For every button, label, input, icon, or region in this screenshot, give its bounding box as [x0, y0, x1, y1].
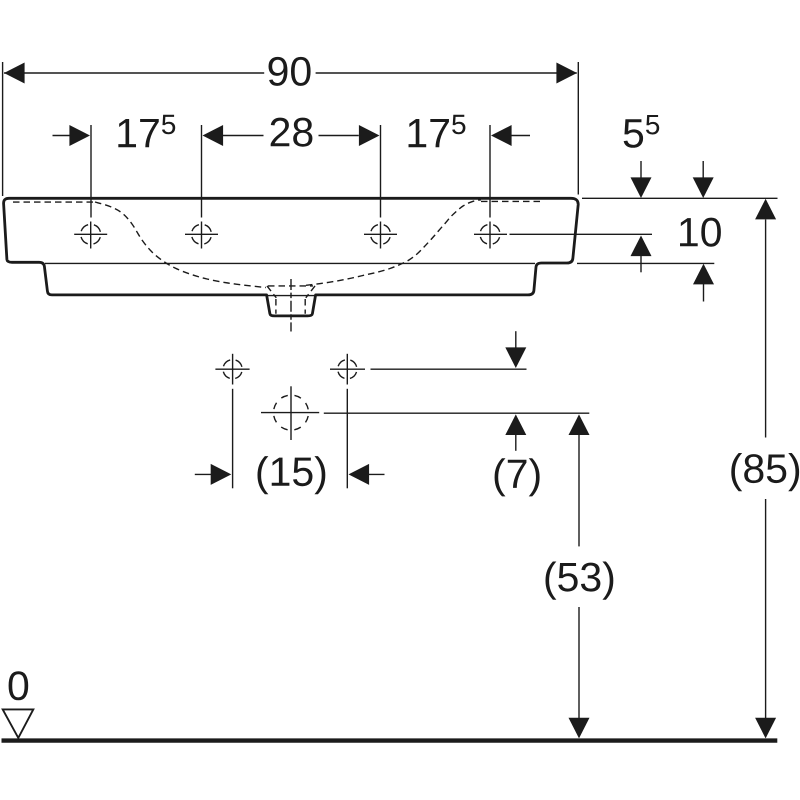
dimension text 17.5 left	[118, 115, 175, 147]
(15) right tail line	[368, 473, 385, 475]
extension line hole2	[201, 125, 203, 218]
drain trap mouth line	[267, 295, 315, 297]
90 right arrow	[556, 63, 577, 84]
(15) left-pointing arrow	[349, 464, 370, 485]
dimension line 28 left segment	[223, 135, 264, 137]
crosshair hole1	[74, 222, 107, 249]
dimension text 17.5 right	[409, 115, 466, 147]
(7) down arrow stem	[515, 331, 517, 348]
datum text 0	[9, 671, 29, 700]
(15) left tail line	[195, 473, 212, 475]
faucet level line	[324, 412, 590, 414]
dimension text (7)	[495, 458, 540, 496]
drain center axis	[290, 279, 292, 332]
17.5L right-pointing arrow	[69, 125, 90, 146]
shelf level thin line left segment	[45, 262, 535, 264]
dimension text 28	[271, 118, 313, 147]
dimension text (53)	[545, 561, 613, 599]
extension line hole4	[489, 125, 491, 218]
crosshair hole4	[474, 222, 507, 249]
extension line hole3	[380, 125, 382, 218]
(85) up arrow	[755, 199, 776, 220]
lower crosshair left extension line	[232, 389, 234, 489]
(15) right-pointing arrow	[211, 464, 232, 485]
dimension line 90 right segment	[316, 72, 577, 74]
shelf level thin line right segment	[577, 262, 714, 264]
dimension line 28 right segment	[319, 135, 359, 137]
basin outer outline (thick)	[4, 198, 579, 316]
(7) up arrow	[505, 414, 526, 435]
(85) dimension line lower segment	[765, 499, 767, 719]
5.5 down arrow	[631, 177, 652, 198]
dimension text (85)	[731, 453, 799, 491]
crosshair hole2	[185, 222, 218, 249]
(7) down arrow	[505, 347, 526, 368]
(85) dimension line upper segment	[765, 220, 767, 438]
28 left arrow	[203, 125, 224, 146]
extension line hole1	[90, 125, 92, 218]
17.5R left-pointing arrow	[491, 125, 512, 146]
lower crosshair left	[215, 354, 249, 385]
lower crosshair right extension line	[346, 389, 348, 489]
dimension text 90	[269, 57, 311, 86]
dimension text 5.5	[624, 115, 660, 148]
(7) up arrow stem	[515, 435, 517, 451]
dimension text (15)	[257, 456, 325, 494]
faucet hole dashed circle	[261, 386, 319, 440]
dimension 17.5 right tail line	[511, 135, 530, 137]
10 up arrow stem	[703, 284, 705, 302]
5.5 up arrow stem	[640, 255, 642, 272]
extension line right (x=578.3)	[577, 62, 579, 195]
(53) dimension line upper segment	[578, 435, 580, 546]
10 up arrow	[693, 264, 714, 285]
5.5 up arrow	[631, 236, 652, 257]
extension line left (x=2.6)	[2, 62, 4, 196]
dimension text 10	[680, 218, 721, 247]
(53) dimension line lower segment	[578, 607, 580, 719]
hole4 level dim line	[510, 233, 653, 235]
datum triangle	[3, 709, 34, 738]
90 left arrow	[4, 63, 25, 84]
lower crosshair right	[330, 354, 365, 385]
(53) up arrow	[569, 414, 590, 435]
10 down arrow stem	[702, 161, 704, 178]
(53) down arrow	[569, 718, 590, 739]
28 right arrow	[359, 125, 380, 146]
basin inner bowl hidden outline (dashed)	[13, 200, 543, 314]
dimension 17.5 left tail line	[53, 135, 72, 137]
5.5 down arrow stem	[640, 161, 642, 178]
dimension line 90 left segment	[4, 72, 264, 74]
crosshair hole3	[364, 222, 397, 249]
top surface level line right	[582, 197, 778, 199]
10 down arrow	[693, 177, 714, 198]
lower hole level line	[371, 368, 527, 370]
floor line	[2, 738, 778, 742]
(85) down arrow	[755, 718, 776, 739]
